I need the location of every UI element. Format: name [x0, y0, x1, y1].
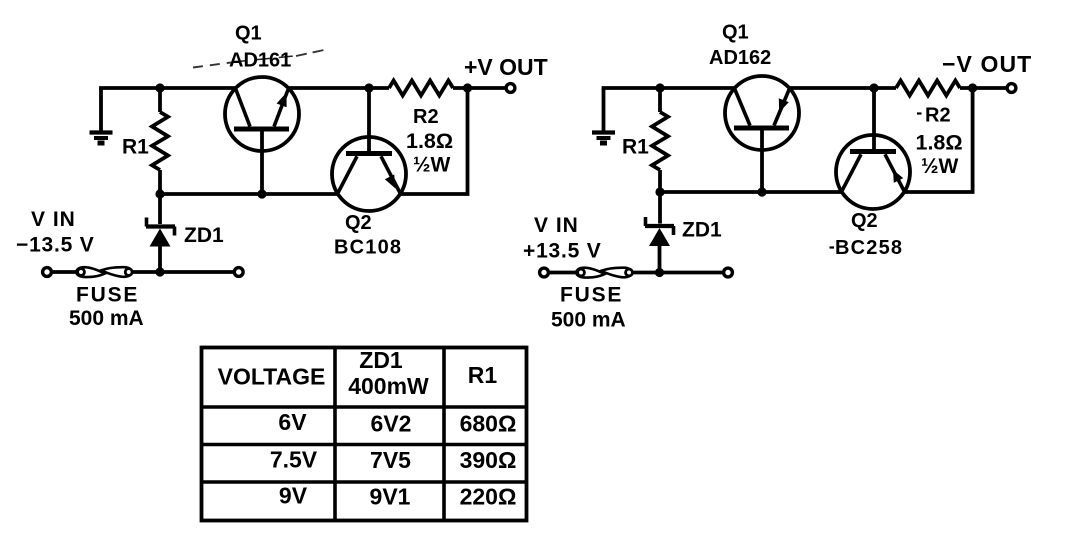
- wire: R2 to +V OUT terminal: [453, 86, 507, 90]
- node: output junction (right): [968, 83, 977, 92]
- node: Q1 base junction: [257, 189, 266, 198]
- node: R1 bottom junction (right): [655, 187, 664, 196]
- node: Q2 base junction (right): [869, 83, 878, 92]
- ground: [90, 88, 113, 143]
- wire: fuse to right terminal: [132, 270, 235, 274]
- zener diode ZD1 (right): [645, 192, 674, 273]
- node: Q1 base junction (right): [757, 187, 766, 196]
- svg-text:R1: R1: [468, 362, 498, 388]
- svg-text:7.5V: 7.5V: [270, 447, 318, 473]
- terminal -V OUT: [1007, 84, 1016, 93]
- svg-text:BC108: BC108: [334, 237, 402, 259]
- svg-text:R1: R1: [622, 136, 649, 159]
- svg-text:V IN: V IN: [31, 208, 76, 231]
- terminal: fuse line right (right circuit): [724, 268, 733, 277]
- resistor R1 (right): [652, 88, 668, 192]
- terminal: V IN left (right circuit): [540, 268, 549, 277]
- ground (right): [592, 88, 615, 143]
- transistor Q1 (AD162): [725, 76, 799, 192]
- svg-text:−V OUT: −V OUT: [942, 51, 1032, 77]
- svg-text:+V OUT: +V OUT: [464, 54, 548, 80]
- svg-text:680Ω: 680Ω: [460, 411, 517, 437]
- svg-text:Q2: Q2: [851, 210, 878, 232]
- svg-text:7V5: 7V5: [370, 447, 411, 473]
- fuse F1: [76, 267, 132, 277]
- resistor R2 (right): [896, 81, 960, 96]
- scan artifact dash: [917, 112, 922, 114]
- fuse F1 (right): [576, 268, 632, 278]
- wire: Q2 emitter to feedback (right): [904, 88, 973, 192]
- transistor Q2 (BC108): [332, 88, 406, 211]
- svg-text:400mW: 400mW: [348, 373, 429, 399]
- resistor R2: [389, 81, 453, 96]
- svg-text:Q2: Q2: [345, 212, 372, 234]
- svg-text:Q1: Q1: [235, 23, 262, 45]
- svg-text:½W: ½W: [921, 155, 959, 178]
- node: Q2 base junction: [364, 83, 373, 92]
- svg-text:R2: R2: [925, 105, 951, 127]
- svg-text:6V2: 6V2: [371, 411, 412, 437]
- scan artifact dash: [830, 246, 835, 248]
- terminal: V IN left: [43, 268, 52, 277]
- transistor Q1 (AD161): [225, 77, 299, 194]
- svg-text:390Ω: 390Ω: [460, 447, 517, 473]
- svg-text:BC258: BC258: [835, 237, 903, 259]
- svg-text:1.8Ω: 1.8Ω: [406, 129, 453, 153]
- svg-text:FUSE: FUSE: [76, 284, 139, 307]
- svg-text:500 mA: 500 mA: [69, 307, 144, 330]
- terminal: fuse line right: [234, 268, 243, 277]
- wire: fuse to right terminal (right): [632, 271, 724, 275]
- wire: R2 to -V OUT terminal: [960, 86, 1008, 90]
- svg-text:ZD1: ZD1: [359, 347, 403, 373]
- svg-text:AD162: AD162: [709, 47, 771, 69]
- wire: terminal to fuse: [52, 270, 79, 274]
- svg-text:½W: ½W: [413, 154, 451, 177]
- svg-text:9V1: 9V1: [370, 484, 411, 510]
- svg-text:500 mA: 500 mA: [551, 309, 626, 332]
- node: ZD1 bottom junction: [155, 267, 164, 276]
- node: R1 top junction (right): [655, 83, 664, 92]
- svg-text:−13.5 V: −13.5 V: [16, 234, 95, 257]
- svg-text:FUSE: FUSE: [560, 284, 623, 307]
- transistor Q2 (BC258): [836, 88, 910, 209]
- svg-text:ZD1: ZD1: [184, 224, 224, 247]
- wire: terminal to fuse (right): [549, 271, 579, 275]
- svg-text:V IN: V IN: [534, 214, 579, 237]
- wire: lower rail R1 to Q2 (right): [660, 190, 842, 194]
- svg-text:+13.5 V: +13.5 V: [523, 240, 602, 263]
- svg-text:R2: R2: [413, 106, 439, 128]
- wire: top rail from ground to Q1: [99, 86, 236, 90]
- resistor R1: [152, 88, 168, 194]
- svg-text:9V: 9V: [279, 483, 308, 509]
- node: R1 bottom junction: [155, 189, 164, 198]
- svg-text:AD161: AD161: [229, 50, 291, 72]
- svg-text:Q1: Q1: [722, 22, 749, 44]
- svg-text:VOLTAGE: VOLTAGE: [218, 364, 326, 390]
- node: R1 top junction: [155, 83, 164, 92]
- node: ZD1 bottom junction (right): [655, 268, 664, 277]
- wire: lower rail R1 to Q2: [160, 192, 338, 196]
- wire: Q2 emitter to feedback: [400, 88, 467, 194]
- table: component values: [202, 348, 527, 521]
- node: output junction: [463, 83, 472, 92]
- svg-text:1.8Ω: 1.8Ω: [916, 131, 963, 155]
- wire: top rail from ground to Q1 (right): [602, 86, 735, 90]
- wire: top rail Q1 to R2: [288, 86, 389, 90]
- svg-text:220Ω: 220Ω: [460, 484, 517, 510]
- terminal +V OUT: [506, 84, 515, 93]
- svg-text:ZD1: ZD1: [682, 219, 722, 242]
- zener diode ZD1: [146, 194, 175, 272]
- svg-text:R1: R1: [122, 136, 149, 159]
- scan artifact dash under label: [233, 56, 294, 62]
- wire: top rail Q1 to R2 (right): [789, 86, 896, 90]
- scan artifact dashed line: [193, 63, 231, 68]
- svg-text:6V: 6V: [278, 409, 307, 435]
